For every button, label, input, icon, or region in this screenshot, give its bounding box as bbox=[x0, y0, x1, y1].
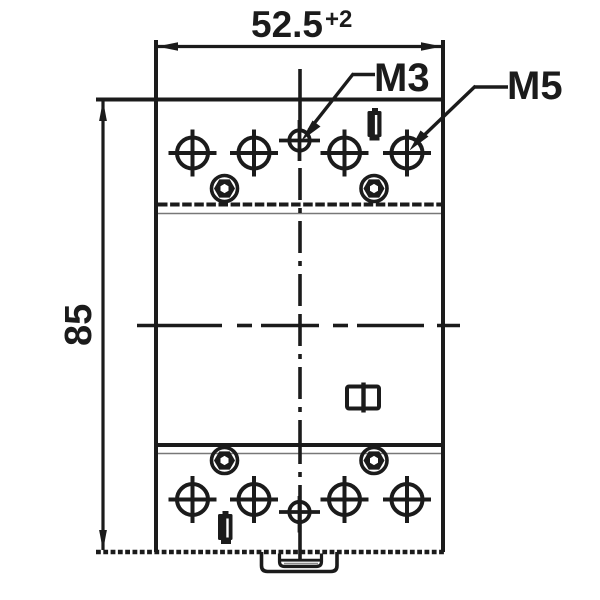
svg-text:M5: M5 bbox=[507, 64, 563, 108]
svg-text:+2: +2 bbox=[325, 6, 352, 33]
svg-text:85: 85 bbox=[58, 304, 100, 346]
svg-text:52.5: 52.5 bbox=[251, 4, 323, 45]
svg-text:M3: M3 bbox=[374, 56, 430, 100]
